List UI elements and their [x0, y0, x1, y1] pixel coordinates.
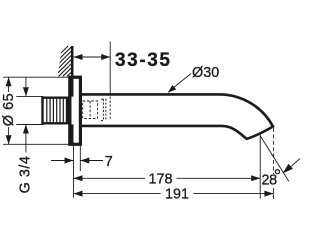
svg-text:Ø30: Ø30 [192, 65, 219, 81]
dim 7 [51, 146, 103, 198]
label Ø30 leader [170, 74, 191, 91]
spout body [80, 94, 273, 138]
svg-text:33-35: 33-35 [115, 50, 172, 71]
angle 28 reference (dashed vertical) [273, 128, 275, 174]
dim 33-35 [74, 42, 111, 96]
pipe end cap [66, 97, 72, 125]
svg-text:178: 178 [148, 171, 172, 187]
svg-text:191: 191 [165, 187, 189, 203]
hidden internal cartridge (dashed) [83, 101, 98, 118]
threaded pipe G3/4 [43, 98, 67, 124]
pipe threads [47, 99, 64, 123]
dim Ø65 [3, 77, 69, 144]
angle 28 flow line [260, 136, 289, 181]
dim 178 [74, 135, 261, 199]
wall hatching [36, 46, 102, 78]
angle 28 leader arrow [285, 159, 300, 172]
escutcheon flange [70, 77, 81, 144]
wall line [71, 46, 74, 97]
dim 191 [74, 188, 274, 199]
svg-text:Ø 65: Ø 65 [1, 93, 17, 126]
hidden extension line through spout (dashed) [109, 97, 111, 121]
hidden aerator (dashed) [101, 99, 106, 121]
svg-text:28: 28 [262, 173, 278, 189]
dim G 3/4 [16, 77, 43, 152]
svg-text:G 3/4: G 3/4 [17, 156, 33, 194]
svg-text:7: 7 [105, 154, 113, 170]
